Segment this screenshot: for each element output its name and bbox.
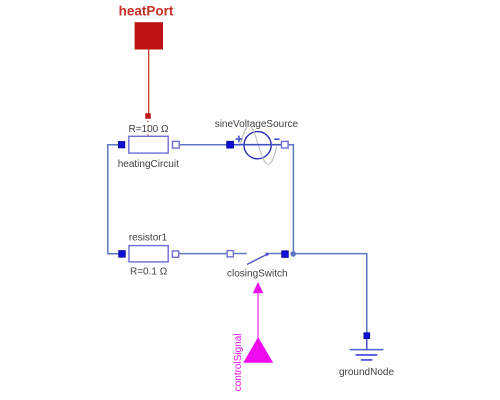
svg-text:R=0.1 Ω: R=0.1 Ω xyxy=(130,266,168,277)
switch right lead xyxy=(269,253,282,255)
switch blade arrowhead xyxy=(265,252,270,256)
svg-text:heatPort: heatPort xyxy=(119,4,174,19)
switch fixed lead xyxy=(234,253,247,255)
svg-text:resistor1: resistor1 xyxy=(129,232,168,243)
plus sign xyxy=(236,136,243,143)
control arrow stem xyxy=(257,293,259,337)
sine pin n (open square) xyxy=(282,141,289,148)
switch blade xyxy=(247,255,267,265)
heatingCircuit pin n (open square) xyxy=(173,141,180,148)
switch pin p (open square) xyxy=(227,251,233,257)
resistor1 pin n (open square) xyxy=(172,251,178,257)
wire left loop xyxy=(108,145,119,254)
wire through sine source xyxy=(233,144,281,146)
sine pin p (filled square) xyxy=(227,141,234,148)
ground bar 3 xyxy=(361,359,372,361)
minus sign xyxy=(274,138,279,140)
ground pin (filled square) xyxy=(364,333,370,339)
svg-text:sineVoltageSource: sineVoltageSource xyxy=(215,119,299,130)
wire node to ground corner xyxy=(293,254,366,333)
sine source circle xyxy=(244,132,271,159)
wire resistor1 to switch xyxy=(179,253,227,255)
controlSignal triangle (boolean output) xyxy=(243,337,273,363)
resistor heatingCircuit body xyxy=(129,136,168,153)
wire heatingCircuit to sineVoltageSource xyxy=(179,144,227,146)
ground bar 1 xyxy=(350,349,384,351)
resistor1 body xyxy=(129,246,168,262)
sine wave (gray) xyxy=(240,126,277,164)
ground stem xyxy=(366,339,368,350)
svg-text:closingSwitch: closingSwitch xyxy=(227,269,288,280)
heat dotted line to resistor xyxy=(147,121,149,136)
resistor1 pin p (filled square) xyxy=(119,251,126,258)
control arrow head (magenta) xyxy=(253,282,264,293)
heatingCircuit pin p (filled square) xyxy=(118,142,124,148)
svg-text:R=100 Ω: R=100 Ω xyxy=(129,124,170,135)
heat connector small square xyxy=(145,113,151,119)
svg-text:controlSignal: controlSignal xyxy=(233,333,244,391)
heat port square xyxy=(135,22,163,49)
svg-text:heatingCircuit: heatingCircuit xyxy=(118,159,179,170)
switch pin n (filled square) xyxy=(282,251,289,258)
junction node dot xyxy=(290,251,296,257)
wire sine right corner down to node xyxy=(288,145,293,254)
svg-text:groundNode: groundNode xyxy=(339,367,394,378)
heat wire (red solid) xyxy=(148,50,150,114)
ground bar 2 xyxy=(356,354,378,356)
